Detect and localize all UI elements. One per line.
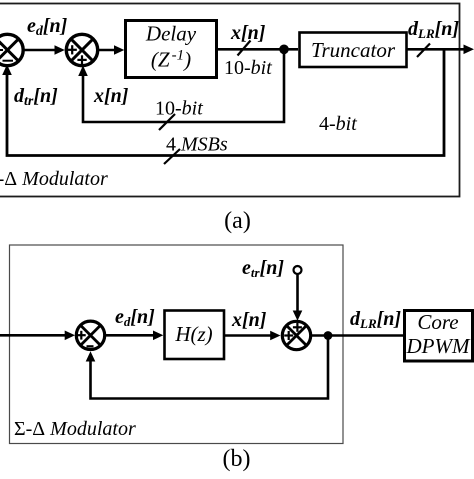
block Truncator: [300, 33, 407, 68]
svg-text:dtr[n]: dtr[n]: [14, 85, 58, 109]
junction node before Truncator: [279, 45, 289, 55]
wire feedback (b) from junction down and left to S1b: [86, 336, 328, 399]
svg-text:ed[n]: ed[n]: [27, 15, 68, 39]
label Sigma-Delta Modulator (b): [14, 418, 136, 440]
summer S2b (b): [282, 321, 310, 349]
svg-text:Truncator: Truncator: [311, 38, 396, 62]
wire S1b to H(z) with arrow: [105, 331, 163, 341]
summer S1b (b): [76, 321, 104, 349]
summer S1 (a): [0, 34, 23, 65]
svg-text:10-bit: 10-bit: [224, 57, 272, 79]
svg-text:Σ-Δ Modulator: Σ-Δ Modulator: [14, 418, 136, 440]
label x[n] after Delay: [230, 22, 266, 44]
wire 10-bit feedback from junction down and left to S2: [78, 49, 284, 122]
label e_d[n] (b): [115, 306, 155, 329]
caption (b): [223, 446, 251, 472]
enclosure box (a) Sigma-Delta Modulator: [0, 4, 460, 197]
svg-text:H(z): H(z): [174, 322, 212, 346]
plus sign left input S2: [68, 45, 77, 54]
minus sign left input S1: [0, 49, 3, 51]
wire Truncator output with arrow to edge: [407, 45, 474, 55]
enclosure box (b) Sigma-Delta Modulator: [10, 245, 344, 444]
label Sigma-Delta Modulator (a): [0, 168, 108, 190]
wire 4 MSBs feedback from output tap down and left: [2, 49, 444, 155]
label e_d[n]: [27, 15, 68, 39]
block Core DPWM: [405, 310, 473, 361]
slash 4-bit on output wire: [417, 44, 430, 58]
slash 10-bit on x[n] wire: [238, 41, 251, 56]
wire H(z) to S2b with arrow: [224, 331, 281, 341]
wire S1 to S2 with arrow: [24, 45, 65, 55]
svg-text:4-bit: 4-bit: [319, 113, 357, 135]
node e_tr open circle: [294, 266, 302, 274]
minus sign bottom input S1b: [87, 345, 94, 347]
svg-text:x[n]: x[n]: [231, 309, 267, 331]
svg-text:Σ-Δ Modulator: Σ-Δ Modulator: [0, 168, 108, 190]
svg-text:4 MSBs: 4 MSBs: [166, 134, 228, 156]
wire Delay to Truncator: [218, 48, 298, 51]
junction node after S2b: [324, 331, 333, 340]
svg-text:x[n]: x[n]: [230, 22, 266, 44]
svg-text:Delay: Delay: [145, 22, 197, 46]
svg-text:10-bit: 10-bit: [155, 98, 203, 120]
svg-text:dLR[n]: dLR[n]: [408, 18, 459, 41]
wire input to S1b with arrow: [0, 331, 75, 341]
label x[n] feedback: [93, 85, 129, 107]
label 4 MSBs: [166, 134, 228, 156]
plus sign bottom input S2: [77, 55, 86, 64]
caption (a): [224, 208, 251, 234]
wire S2 to Delay with arrow: [99, 45, 125, 55]
slash on 4 MSBs wire: [164, 149, 180, 164]
summer S2 (a): [66, 34, 97, 65]
label 10-bit feedback: [155, 98, 203, 120]
label e_tr[n]: [242, 257, 284, 280]
plus sign top input S2b: [293, 323, 302, 332]
svg-text:x[n]: x[n]: [93, 85, 129, 107]
block H(z): [165, 311, 225, 360]
plus sign left input S1b: [77, 331, 86, 340]
block Delay (Z^-1): [126, 21, 217, 78]
svg-text:(a): (a): [224, 208, 251, 234]
svg-text:etr[n]: etr[n]: [242, 257, 284, 280]
svg-text:dLR[n]: dLR[n]: [350, 308, 401, 331]
plus sign left input S2b: [284, 331, 293, 340]
wire e_tr to S2b with arrow: [293, 275, 303, 321]
svg-text:Core: Core: [417, 310, 458, 334]
label 10-bit after Delay: [224, 57, 272, 79]
label x[n] (b): [231, 309, 267, 331]
svg-text:ed[n]: ed[n]: [115, 306, 155, 329]
minus sign bottom input S1: [3, 60, 14, 62]
label 4-bit: [319, 113, 357, 135]
label d_tr[n]: [14, 85, 58, 109]
label d_LR[n] (b): [350, 308, 401, 331]
svg-text:DPWM: DPWM: [406, 334, 471, 358]
label d_LR[n] (a): [408, 18, 459, 41]
svg-text:(b): (b): [223, 446, 251, 472]
slash on 10-bit feedback wire: [159, 114, 175, 130]
wire S2b output to Core DPWM: [311, 334, 405, 337]
